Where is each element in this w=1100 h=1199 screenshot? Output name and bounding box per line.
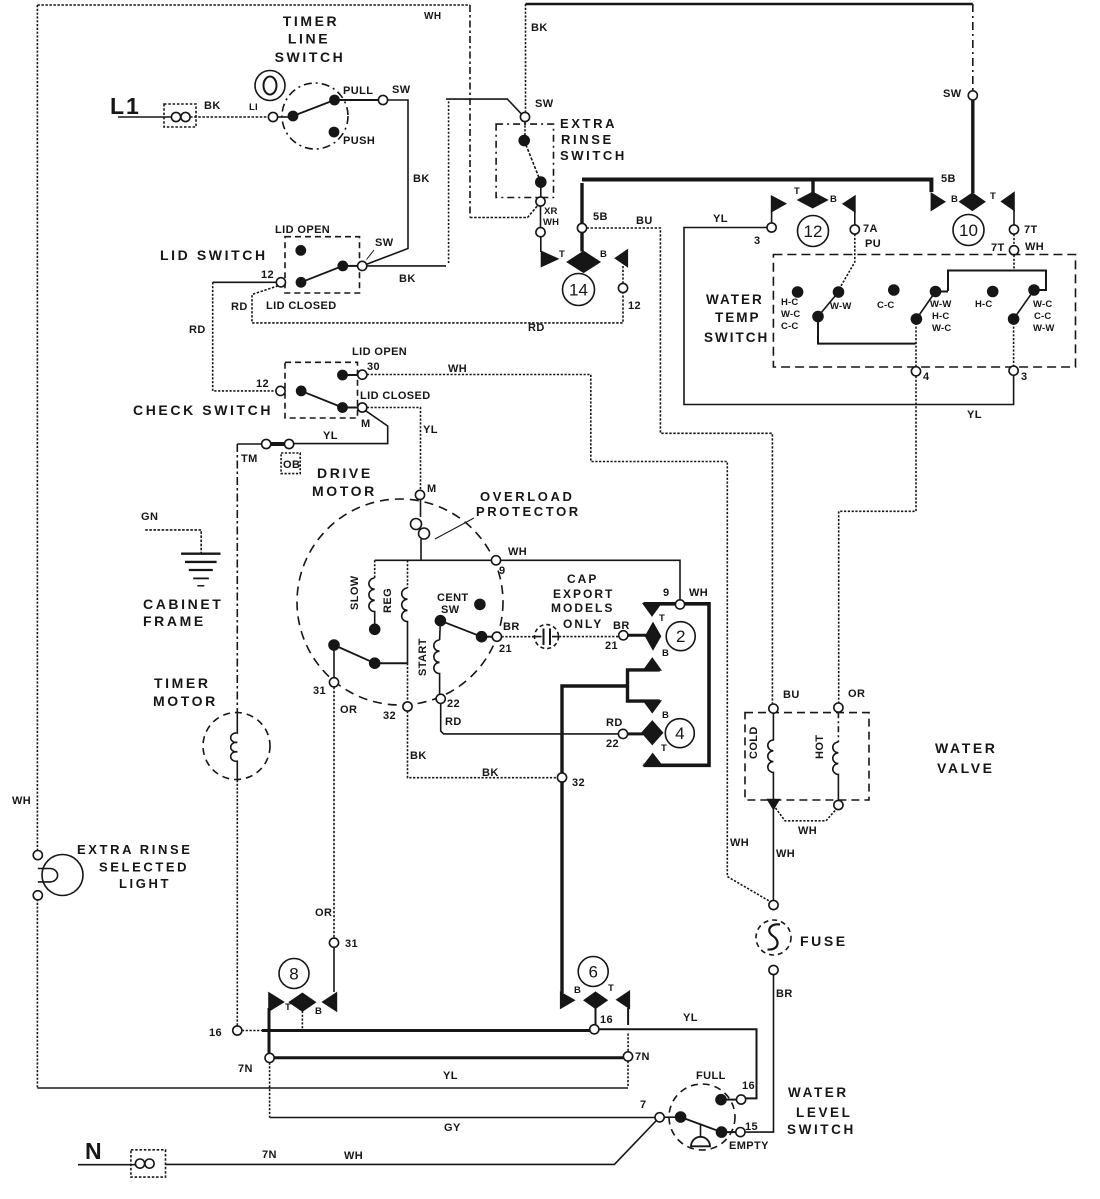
svg-text:7N: 7N: [262, 1149, 277, 1161]
pole B blade: [916, 292, 935, 320]
svg-text:H-C: H-C: [932, 311, 950, 322]
svg-text:LEVEL: LEVEL: [796, 1105, 853, 1120]
svg-text:PU: PU: [865, 238, 881, 250]
wire GN: [145, 530, 201, 554]
extra rinse switch dashed box: [496, 124, 553, 197]
svg-text:8: 8: [289, 965, 298, 984]
svg-text:RD: RD: [445, 716, 462, 728]
svg-text:BR: BR: [776, 988, 793, 1000]
contact lid open (unused): [296, 246, 305, 255]
svg-text:WH: WH: [730, 837, 749, 849]
node 16a: [233, 1026, 242, 1035]
svg-text:SW: SW: [441, 604, 460, 616]
terminal 21: [492, 632, 501, 641]
connector 8: [279, 959, 309, 989]
svg-text:SLOW: SLOW: [349, 575, 361, 610]
svg-text:21: 21: [605, 640, 618, 652]
speed selector pivot: [329, 640, 339, 650]
svg-text:B: B: [662, 710, 669, 721]
terminal SW timer: [378, 95, 387, 104]
connector 10: [931, 194, 944, 211]
svg-text:CHECK SWITCH: CHECK SWITCH: [133, 402, 273, 418]
svg-text:22: 22: [606, 738, 619, 750]
wire WH drop to XR: [469, 5, 471, 218]
svg-text:5B: 5B: [593, 211, 608, 223]
terminal 7T lower: [1013, 234, 1015, 246]
svg-text:GN: GN: [141, 511, 158, 523]
svg-text:TEMP: TEMP: [715, 310, 761, 325]
wire pole C to node 3: [1013, 319, 1015, 366]
connector N disconnect box: [131, 1150, 166, 1177]
water level switch dashed circle: [669, 1084, 735, 1150]
svg-text:WH: WH: [448, 363, 467, 375]
timer motor coil: [231, 712, 238, 780]
svg-text:C-C: C-C: [781, 321, 799, 332]
svg-text:YL: YL: [443, 1070, 458, 1082]
svg-text:COLD: COLD: [748, 726, 760, 759]
svg-text:YL: YL: [683, 1012, 698, 1024]
svg-text:TM: TM: [241, 453, 258, 465]
water level blade: [681, 1117, 722, 1132]
svg-text:WH: WH: [543, 217, 559, 228]
connector OB box: [281, 453, 300, 474]
svg-text:30: 30: [367, 361, 380, 373]
wire 7N WH N to water level 7: [166, 1121, 657, 1165]
svg-text:T: T: [661, 743, 667, 754]
svg-text:7A: 7A: [863, 223, 878, 235]
svg-text:OR: OR: [340, 704, 357, 716]
valve bottom terminals: [768, 800, 779, 810]
contact top extra rinse: [524, 122, 526, 136]
svg-text:L1: L1: [110, 93, 141, 119]
svg-text:TIMER: TIMER: [283, 13, 340, 29]
wire conn6 diamond to 16: [595, 1008, 597, 1024]
wire BK 32: [408, 711, 558, 778]
timer line switch dashed circle: [282, 83, 348, 149]
svg-text:B: B: [574, 985, 581, 996]
wire conn8 diamond to 16 wire: [301, 1011, 303, 1031]
svg-text:XR: XR: [544, 206, 558, 217]
fuse: [769, 900, 778, 909]
svg-text:WH: WH: [12, 795, 31, 807]
solenoid HOT: [837, 712, 839, 742]
wire PU to temp switch: [840, 234, 855, 288]
svg-text:7: 7: [640, 1099, 647, 1111]
svg-text:6: 6: [588, 963, 597, 982]
svg-text:EXTRA: EXTRA: [560, 116, 617, 131]
svg-text:LIGHT: LIGHT: [119, 876, 171, 891]
svg-text:12: 12: [628, 300, 641, 312]
svg-text:YL: YL: [713, 213, 728, 225]
svg-text:PULL: PULL: [343, 85, 373, 97]
svg-text:RD: RD: [231, 301, 248, 313]
switch blade lid: [301, 266, 343, 282]
connector 2/4 block: [644, 604, 710, 766]
svg-text:PUSH: PUSH: [343, 135, 375, 147]
wire BK SW down to lid switch: [366, 100, 408, 265]
wire WH node9 to conn2: [501, 560, 680, 600]
svg-text:LID SWITCH: LID SWITCH: [160, 247, 268, 263]
svg-text:EMPTY: EMPTY: [729, 1140, 769, 1152]
wire BR to capacitor: [502, 636, 535, 638]
svg-text:31: 31: [313, 685, 326, 697]
overload protector: [420, 500, 422, 518]
svg-text:BK: BK: [204, 100, 221, 112]
wire BK top border: [526, 3, 973, 6]
svg-text:MOTOR: MOTOR: [312, 483, 377, 499]
wire GY: [270, 1117, 655, 1119]
svg-text:RINSE: RINSE: [561, 132, 614, 147]
svg-text:EXTRA RINSE: EXTRA RINSE: [77, 842, 193, 857]
svg-text:SWITCH: SWITCH: [275, 49, 346, 65]
svg-text:12: 12: [261, 269, 274, 281]
wire 32 down to conn6: [560, 782, 563, 993]
svg-text:OR: OR: [315, 907, 332, 919]
svg-text:T: T: [608, 983, 614, 994]
wire RD lid 12 to connector 14 pin 12: [252, 286, 623, 323]
wire BK down to extra rinse SW: [525, 4, 527, 112]
pole A contacts: [793, 287, 803, 297]
svg-text:15: 15: [745, 1121, 758, 1133]
svg-text:START: START: [417, 638, 429, 676]
svg-text:T: T: [285, 1002, 291, 1013]
svg-text:14: 14: [569, 281, 588, 300]
terminal 12 lid: [276, 278, 285, 287]
connector L1 disconnect box: [164, 104, 196, 127]
svg-text:WH: WH: [508, 546, 527, 558]
wire PULL to SW: [335, 99, 379, 101]
svg-text:7T: 7T: [991, 242, 1005, 254]
svg-text:T: T: [659, 613, 665, 624]
node 7N-a: [265, 1053, 274, 1062]
svg-text:ONLY: ONLY: [563, 617, 603, 631]
wire WH valve to fuse: [772, 808, 774, 900]
wire BU to water valve: [587, 228, 773, 704]
svg-text:VALVE: VALVE: [937, 760, 995, 776]
svg-text:YL: YL: [967, 409, 982, 421]
svg-text:10: 10: [959, 221, 978, 240]
wire WH left border vertical: [36, 5, 38, 851]
svg-text:C-C: C-C: [877, 300, 895, 311]
svg-text:SW: SW: [392, 84, 411, 96]
terminal BU valve: [769, 704, 778, 713]
capacitor cap export: [535, 625, 559, 649]
water valve dashed box: [745, 713, 869, 800]
svg-text:T: T: [794, 186, 800, 197]
terminal SW extra rinse: [520, 112, 529, 121]
svg-text:CENT: CENT: [437, 592, 469, 604]
terminal OR valve: [834, 703, 843, 712]
svg-text:LINE: LINE: [288, 31, 330, 47]
wire XR down: [540, 206, 542, 228]
svg-text:32: 32: [383, 710, 396, 722]
svg-text:WATER: WATER: [935, 740, 998, 756]
svg-text:REG: REG: [382, 588, 394, 613]
svg-text:WH: WH: [1025, 241, 1044, 253]
wire timer motor vertical: [236, 444, 238, 712]
svg-text:BU: BU: [783, 689, 800, 701]
svg-text:BR: BR: [503, 621, 520, 633]
pole C blade: [1014, 290, 1034, 319]
contact pivot lid: [296, 278, 305, 287]
wire M check to drive motor: [367, 408, 421, 491]
svg-text:H-C: H-C: [975, 299, 993, 310]
switch blade extra rinse: [524, 141, 541, 183]
node 5B: [580, 183, 583, 252]
terminal 12 check: [276, 386, 285, 395]
svg-text:W-C: W-C: [932, 323, 951, 334]
contact bottom extra rinse: [536, 177, 546, 187]
wire conn8 T to 7N: [268, 1008, 271, 1053]
svg-text:16: 16: [742, 1080, 755, 1092]
node 32: [557, 773, 566, 782]
contact pivot check: [297, 386, 306, 395]
wire WH check 30 to fuse: [367, 375, 774, 904]
contact M check: [338, 403, 347, 412]
svg-text:B: B: [951, 194, 958, 205]
water level EMPTY contact: [717, 1127, 727, 1137]
terminal SW conn10: [968, 91, 977, 100]
connector TM disconnect: [285, 439, 294, 448]
svg-text:BK: BK: [410, 750, 427, 762]
water level pivot 7: [655, 1113, 664, 1122]
svg-text:16: 16: [600, 1014, 613, 1026]
svg-text:WH: WH: [689, 587, 708, 599]
switch blade: [293, 100, 335, 116]
terminal SW lid: [358, 261, 367, 270]
wire pole B to node 4: [915, 319, 917, 367]
wire 12 lid to left: [213, 281, 277, 283]
wire SW to conn10: [971, 100, 974, 193]
svg-text:WH: WH: [776, 848, 795, 860]
svg-text:W-W: W-W: [830, 301, 852, 312]
svg-text:LID CLOSED: LID CLOSED: [266, 300, 337, 312]
contact 30: [338, 370, 347, 379]
svg-text:2: 2: [676, 627, 685, 646]
svg-text:BK: BK: [413, 173, 430, 185]
svg-text:FULL: FULL: [696, 1070, 726, 1082]
contact PUSH: [329, 127, 338, 136]
svg-text:W-W: W-W: [1033, 323, 1055, 334]
wire WH valve link: [776, 808, 837, 821]
svg-text:MODELS: MODELS: [551, 601, 614, 615]
svg-text:FRAME: FRAME: [143, 613, 206, 629]
svg-text:EXPORT: EXPORT: [553, 587, 614, 601]
svg-text:WH: WH: [344, 1150, 363, 1162]
svg-text:RD: RD: [606, 717, 623, 729]
svg-text:7N: 7N: [238, 1063, 253, 1075]
cent sw blade: [440, 621, 481, 637]
pole A blade: [818, 292, 839, 317]
wire YL bottom: [37, 1087, 628, 1089]
winding SLOW: [374, 560, 376, 578]
svg-text:C-C: C-C: [1034, 311, 1052, 322]
connector 14: [542, 252, 558, 267]
svg-text:GY: GY: [444, 1122, 461, 1134]
pole A to node4: [818, 317, 916, 344]
wire conn6 T to 7N: [627, 1008, 629, 1025]
svg-text:WATER: WATER: [706, 292, 764, 307]
svg-text:31: 31: [345, 938, 358, 950]
connector 12: [772, 196, 786, 211]
wire WH left border lower vertical: [36, 899, 38, 1088]
wire 7N drop to YL wire: [627, 1061, 629, 1087]
svg-text:BK: BK: [482, 767, 499, 779]
lid switch dashed box: [285, 237, 360, 293]
water temp switch dashed box: [773, 255, 1075, 368]
wire WH top border horizontal: [37, 4, 470, 6]
svg-text:SELECTED: SELECTED: [99, 860, 189, 875]
svg-text:OB: OB: [283, 459, 300, 471]
svg-text:3: 3: [1021, 371, 1028, 383]
svg-text:7T: 7T: [1024, 224, 1038, 236]
svg-text:16: 16: [209, 1027, 222, 1039]
wire RD 22 to conn4: [441, 703, 619, 734]
svg-text:32: 32: [572, 777, 585, 789]
wire 31: [333, 645, 335, 678]
svg-text:W-W: W-W: [930, 299, 952, 310]
svg-text:B: B: [315, 1006, 322, 1017]
wire SW top right: [972, 4, 974, 91]
bus 5B thick: [582, 180, 931, 193]
pole C contacts: [988, 287, 998, 297]
svg-text:B: B: [830, 194, 837, 205]
svg-text:4: 4: [923, 371, 930, 383]
svg-text:12: 12: [804, 222, 823, 241]
svg-text:WH: WH: [424, 11, 441, 22]
wire GY drop: [269, 1063, 271, 1118]
svg-text:MOTOR: MOTOR: [153, 693, 218, 709]
svg-text:BR: BR: [613, 620, 630, 632]
svg-text:RD: RD: [528, 322, 545, 334]
wire WH motor top: [375, 559, 492, 561]
svg-text:SWITCH: SWITCH: [704, 330, 769, 345]
wire 32 up to bracket: [562, 686, 628, 773]
wire 7T into box: [1013, 255, 1015, 271]
wire BK lid SW to extra rinse: [367, 265, 446, 267]
svg-text:CABINET: CABINET: [143, 596, 223, 612]
svg-text:SW: SW: [535, 98, 554, 110]
switch blade check: [301, 391, 342, 408]
wire N: [78, 1164, 136, 1166]
contact lid closed: [338, 261, 347, 270]
svg-text:YL: YL: [323, 430, 338, 442]
wire RD down to check switch: [213, 282, 276, 391]
svg-text:PROTECTOR: PROTECTOR: [476, 504, 581, 519]
svg-text:T: T: [990, 191, 996, 202]
svg-text:SWITCH: SWITCH: [560, 148, 627, 163]
svg-text:21: 21: [499, 643, 512, 655]
svg-text:BK: BK: [531, 22, 548, 34]
wire node 4 to water valve OR: [839, 376, 916, 703]
wire OR down: [333, 687, 335, 938]
wire YL 16 to water level: [599, 1029, 757, 1098]
svg-text:TIMER: TIMER: [154, 675, 211, 691]
svg-text:H-C: H-C: [781, 297, 799, 308]
wire L1 to box: [118, 116, 171, 118]
contact common: [278, 116, 289, 118]
svg-text:OVERLOAD: OVERLOAD: [480, 489, 574, 504]
wire 7N bus: [274, 1056, 623, 1059]
terminal 3 conn12: [771, 212, 773, 224]
speed blade: [334, 645, 375, 663]
node 9: [491, 556, 500, 565]
svg-text:WH: WH: [798, 825, 817, 837]
svg-text:LID OPEN: LID OPEN: [275, 224, 330, 236]
wire BR fuse to water level: [745, 975, 773, 1133]
svg-text:4: 4: [675, 724, 684, 743]
timer line switch circled 0: [255, 71, 285, 101]
svg-text:5B: 5B: [941, 173, 956, 185]
water level weight: [700, 1124, 702, 1137]
terminal 12 conn14: [622, 266, 624, 284]
cent sw open contact: [475, 599, 485, 609]
svg-text:HOT: HOT: [814, 735, 826, 759]
svg-text:LID OPEN: LID OPEN: [352, 346, 407, 358]
svg-text:9: 9: [663, 587, 670, 599]
svg-text:12: 12: [256, 378, 269, 390]
solenoid COLD: [768, 713, 774, 799]
svg-text:9: 9: [499, 565, 506, 577]
svg-text:T: T: [559, 249, 565, 260]
connector 12 drop: [811, 181, 814, 193]
terminal XR: [540, 182, 542, 197]
pole B contacts: [889, 285, 899, 295]
svg-text:WATER: WATER: [788, 1085, 849, 1100]
check switch dashed box: [285, 362, 358, 418]
lamp extra rinse selected light: [33, 851, 42, 860]
terminal LI: [268, 112, 277, 121]
svg-text:YL: YL: [423, 424, 438, 436]
wire YL check M to TM: [294, 411, 388, 444]
wire BK box to LI: [190, 116, 269, 118]
svg-text:3: 3: [754, 235, 761, 247]
svg-text:SWITCH: SWITCH: [787, 1122, 856, 1137]
svg-text:SW: SW: [943, 88, 962, 100]
wire 16 bus: [242, 1030, 262, 1032]
temp switch top bus: [948, 271, 1046, 292]
svg-text:B: B: [600, 249, 607, 260]
svg-text:W-C: W-C: [781, 309, 800, 320]
svg-text:LI: LI: [249, 102, 258, 113]
svg-text:M: M: [361, 418, 371, 430]
terminal M motor: [415, 490, 424, 499]
svg-text:RD: RD: [189, 324, 206, 336]
svg-text:W-C: W-C: [1033, 299, 1052, 310]
svg-text:N: N: [85, 1138, 104, 1164]
contact PULL: [330, 95, 339, 104]
winding REG: [407, 560, 409, 588]
terminal M check: [358, 403, 367, 412]
terminal 7A conn12: [854, 212, 856, 226]
wire BR cap to 21: [559, 636, 619, 638]
svg-text:CAP: CAP: [567, 572, 598, 586]
drive motor dashed circle: [297, 499, 503, 705]
svg-text:BU: BU: [636, 215, 653, 227]
svg-text:SW: SW: [375, 237, 394, 249]
terminal 7T conn10: [1013, 210, 1015, 225]
svg-text:7N: 7N: [635, 1051, 650, 1063]
terminal 30: [358, 370, 367, 379]
svg-text:OR: OR: [848, 688, 865, 700]
terminal 32 motor: [407, 663, 409, 702]
svg-text:LID CLOSED: LID CLOSED: [360, 390, 431, 402]
svg-text:FUSE: FUSE: [800, 933, 848, 949]
wire YL conn12-3 to temp switch 3: [684, 228, 1014, 405]
ground cabinet frame: [181, 553, 220, 555]
svg-text:M: M: [427, 483, 437, 495]
svg-text:B: B: [662, 648, 669, 659]
